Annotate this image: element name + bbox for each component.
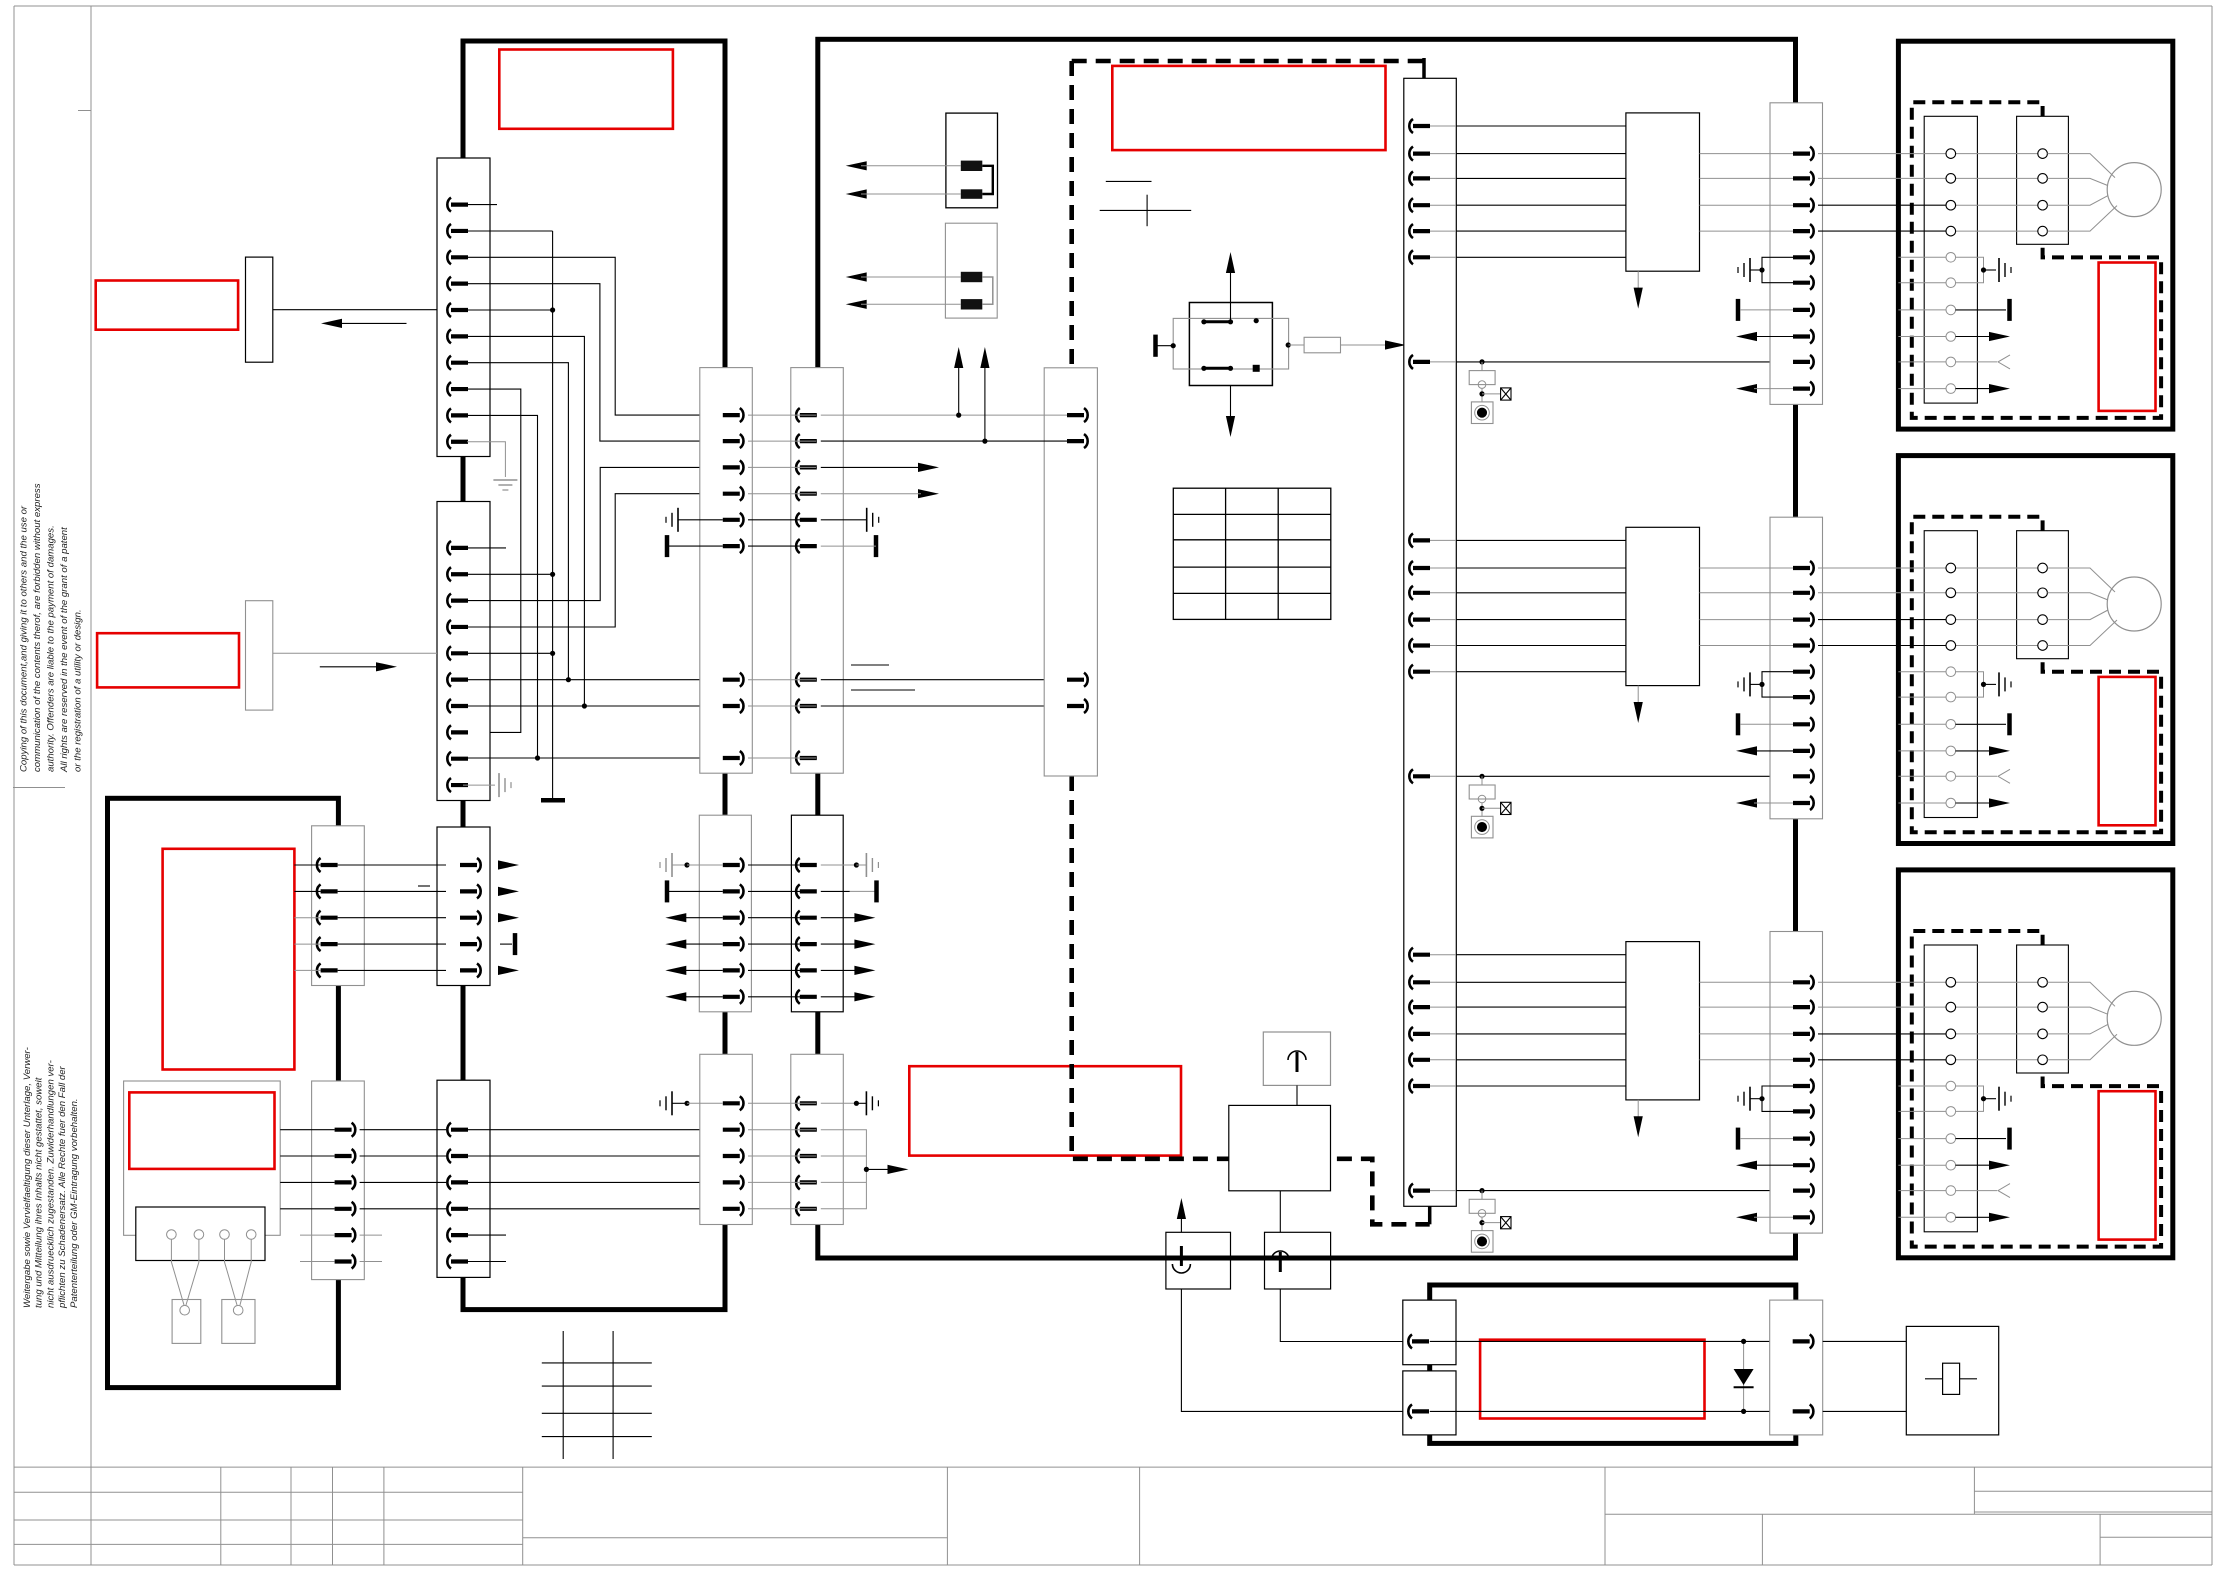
connector strip X7b: [791, 1054, 844, 1224]
pin X31.1: [1810, 147, 1814, 161]
wire X2.2 to bus: [463, 573, 553, 575]
wire X7 link: [748, 1208, 816, 1210]
wire X8 out: [338, 943, 446, 945]
diode V1: [1743, 1341, 1745, 1411]
wire B2-B3: [1279, 1191, 1281, 1233]
arrow X33.10: [1736, 1213, 1757, 1222]
pin X5a.5: [740, 513, 744, 527]
pin X6b.4: [796, 937, 800, 951]
wire X8 in: [294, 917, 320, 919]
display unit box: [124, 1081, 281, 1235]
relay K2 right resistor: [1286, 342, 1291, 347]
pin X2.1: [447, 541, 451, 555]
pin X5a.4: [740, 487, 744, 501]
wire T2 out 2: [1700, 592, 1794, 594]
pin X20.19: [1409, 1053, 1413, 1067]
pin X7a.4: [740, 1175, 744, 1189]
wire X9 out: [360, 1181, 446, 1183]
pin X4.6: [447, 1255, 451, 1269]
terminator M3.7: [1898, 1138, 1945, 1140]
pin X6a.1: [740, 858, 744, 872]
arrow out X3.5: [498, 966, 519, 975]
terminator left X5a.6: [665, 535, 670, 557]
wire X8 out: [338, 917, 446, 919]
indicator H22: [1471, 1231, 1493, 1253]
pin X20.9: [1409, 561, 1413, 575]
wire X33.3 to motor: [1818, 1033, 1946, 1035]
drive module T3: [1626, 942, 1700, 1100]
motor unit box M2: [1898, 456, 2172, 844]
wire X20 to T3: [1456, 954, 1626, 956]
wire X1.6 to X5a row706: [463, 336, 584, 706]
svg-text:Copying of this document,and g: Copying of this document,and giving it t…: [19, 505, 30, 772]
motor connector strip A3: [1924, 945, 1977, 1232]
socket A2.7: [1946, 720, 1956, 730]
wire X31.4 to motor: [1818, 230, 1946, 232]
pin X3.4: [477, 937, 481, 951]
wire X20 to T2: [1456, 567, 1626, 569]
pin X5a.6: [740, 539, 744, 553]
pin X31.6: [1810, 276, 1814, 290]
wire B4 to X11.2: [1181, 1289, 1403, 1411]
pin X5a.7: [740, 673, 744, 687]
left stubs M3: [1898, 1085, 1945, 1087]
wire X5b row679 out: [821, 679, 1065, 681]
socket A1.2: [1946, 174, 1956, 184]
wire T3 out 3: [1700, 1033, 1794, 1035]
socket A1.3: [1946, 200, 1956, 210]
wire X4.4: [463, 1208, 720, 1210]
connector strip X32: [1770, 517, 1823, 819]
pin X1.8: [447, 382, 451, 396]
pin X3.2: [477, 884, 481, 898]
earth bracket M2: [1956, 672, 1984, 697]
wire X20 to T3: [1456, 1006, 1626, 1008]
pin X6b.1: [796, 858, 800, 872]
wire X7 link: [748, 1155, 816, 1157]
earth bracket X33: [1762, 1086, 1793, 1111]
arrow out F2.1: [846, 272, 867, 281]
connector box X11.1: [1403, 1300, 1456, 1365]
terminal circle 1: [167, 1230, 177, 1240]
stub to X20 top: [1422, 58, 1426, 78]
mounting grid: [562, 1331, 564, 1459]
pin X2.5: [447, 646, 451, 660]
wire X2.5 to bus: [463, 652, 553, 654]
pin X7b.5: [796, 1202, 800, 1216]
wire X8 out: [338, 890, 446, 892]
wire motor link 2: [1956, 177, 2038, 179]
socket A1.6: [1946, 278, 1956, 288]
pin X1.7: [447, 356, 451, 370]
earth right X6b.1: [821, 864, 857, 866]
redacted text cross: [1100, 209, 1192, 211]
wire T1 out 4: [1700, 230, 1794, 232]
frame divider y787: [13, 787, 65, 789]
socket A1.1: [1946, 149, 1956, 159]
pin X33.7: [1810, 1132, 1814, 1146]
pin X3.1: [477, 858, 481, 872]
pin X8.2: [317, 884, 321, 898]
earth bracket M1: [1956, 257, 1984, 282]
arrow M1.8: [1898, 336, 1945, 338]
pin X6a.5: [740, 963, 744, 977]
wire row1341: [1430, 1340, 1770, 1342]
pin X5a.3: [740, 460, 744, 474]
wire T1 out 1: [1700, 153, 1794, 155]
arrow left X6a: [665, 940, 686, 949]
pin X6a.4: [740, 937, 744, 951]
plug box B3: [1265, 1232, 1331, 1289]
pin X32.4: [1810, 639, 1814, 653]
wire to X10.1: [959, 414, 1067, 416]
motor M3 circle: [2107, 991, 2161, 1045]
pin X32.7: [1810, 717, 1814, 731]
svg-text:All rights are reserved in the: All rights are reserved in the event of …: [59, 527, 70, 773]
pin X12.2: [1810, 1404, 1814, 1418]
pin X33.3: [1810, 1027, 1814, 1041]
pin X5a.9: [740, 751, 744, 765]
wire X5 link: [748, 679, 816, 681]
pin X6b.2: [796, 884, 800, 898]
drive module T2: [1626, 527, 1700, 685]
wire X9 out: [360, 1129, 446, 1131]
pin X20.det2: [1409, 769, 1413, 783]
arrow M2.8: [1898, 750, 1945, 752]
wire motor link 1: [1956, 153, 2038, 155]
socket A1.8: [1946, 332, 1956, 342]
pin X20.18: [1409, 1027, 1413, 1041]
svg-text:or the registration of a utili: or the registration of a utility or desi…: [72, 609, 83, 772]
wire X8 out: [338, 969, 446, 971]
wire X20 to T3: [1456, 1033, 1626, 1035]
wire X1.8 to X2.8: [463, 389, 521, 732]
connector strip X5a: [700, 368, 753, 774]
pin X31.9: [1810, 355, 1814, 369]
wire X20 to T2: [1456, 671, 1626, 673]
wire X4.5 stub: [463, 1234, 506, 1236]
pin X9.3: [352, 1175, 356, 1189]
arrow out X7b: [864, 1167, 869, 1172]
arrow left X6a: [665, 913, 686, 922]
pin X1.9: [447, 408, 451, 422]
wire X9 in: [280, 1208, 334, 1210]
arrow out F1.2: [846, 189, 867, 198]
wire X9 out: [360, 1208, 446, 1210]
emergency detector S20: [1456, 361, 1793, 363]
wire X2.7 row706: [463, 705, 720, 707]
pin X9.1: [352, 1123, 356, 1137]
pin X31.10: [1810, 382, 1814, 396]
wire X5b.1 out: [821, 414, 959, 416]
connector box X11.2: [1403, 1371, 1456, 1435]
pin X32.6: [1810, 690, 1814, 704]
pin X6b.3: [796, 911, 800, 925]
shield dashed M1: [1912, 102, 2161, 418]
arrow right X6b: [854, 966, 875, 975]
pin X20.det1: [1409, 355, 1413, 369]
pin X31.3: [1810, 198, 1814, 212]
plug box B4: [1166, 1232, 1231, 1289]
wire X5 row546 link: [748, 545, 816, 547]
lamp wires: [171, 1239, 184, 1305]
bus stub below X20: [1428, 1206, 1432, 1224]
pin X32.10: [1810, 796, 1814, 810]
wire X2.3 to X5a.3: [463, 467, 720, 600]
wire T3 out 2: [1700, 1006, 1794, 1008]
pin X31.7: [1810, 303, 1814, 317]
socket A3.5: [1946, 1081, 1956, 1091]
pin X33.2: [1810, 1000, 1814, 1014]
arrow right X6b: [854, 992, 875, 1001]
wire X5 link: [748, 493, 816, 495]
socket A3.2: [1946, 1002, 1956, 1012]
svg-text:Patenterteilung oder GM-Eintra: Patenterteilung oder GM-Eintragung vorbe…: [69, 1098, 80, 1308]
pin X20.1: [1409, 119, 1413, 133]
wire X7 link: [748, 1181, 816, 1183]
pin X5a.1: [740, 408, 744, 422]
arrow left X6a: [665, 992, 686, 1001]
pin X9.4: [352, 1202, 356, 1216]
pin X7a.2: [740, 1123, 744, 1137]
wire to X10.2: [985, 440, 1067, 442]
wire X32.4 to motor: [1818, 645, 1946, 647]
tick mark X8: [418, 885, 430, 887]
wire T3 out 4: [1700, 1059, 1794, 1061]
pin X32.9: [1810, 769, 1814, 783]
wire X4.3: [463, 1181, 720, 1183]
arrow M2.10: [1898, 802, 1945, 804]
arrow out X3.3: [498, 913, 519, 922]
terminal circle 3: [220, 1230, 230, 1240]
motor connector strip A1: [1924, 116, 1977, 403]
socket A3.7: [1946, 1134, 1956, 1144]
connector strip X4: [437, 1080, 490, 1277]
wire X6 link: [748, 917, 816, 919]
socket B1.2: [2038, 174, 2048, 184]
wire motor link 4: [1956, 645, 2038, 647]
relay K2 contacts: [1204, 320, 1231, 323]
wire motor link 1: [1956, 981, 2038, 983]
wire X7 link: [748, 1102, 816, 1104]
terminator M2.7: [1898, 723, 1945, 725]
terminator X32.7: [1736, 713, 1741, 735]
arrow out X3.2: [498, 887, 519, 896]
pin X7a.3: [740, 1149, 744, 1163]
wire X9 stub: [300, 1261, 335, 1263]
pin X2.10: [447, 778, 451, 792]
pin X2.9: [447, 752, 451, 766]
pin X6b.5: [796, 963, 800, 977]
pin X20.16: [1409, 975, 1413, 989]
motor connector strip A2: [1924, 531, 1977, 818]
socket B2.1: [2038, 563, 2048, 573]
wire X20 to T1: [1456, 204, 1626, 206]
bus X11 left: [1428, 1365, 1432, 1371]
pin X7b.4: [796, 1175, 800, 1189]
wire X5b.3 out: [918, 463, 939, 472]
pin X5a.2: [740, 434, 744, 448]
pin X1.4: [447, 277, 451, 291]
pin X20.10: [1409, 586, 1413, 600]
pin X10.4: [1084, 699, 1088, 713]
svg-text:Weitergabe sowie Vervielfaelti: Weitergabe sowie Vervielfaeltigung diese…: [22, 1047, 33, 1308]
wire X5 row519 link: [748, 519, 816, 521]
relay box K3: [1906, 1326, 1998, 1435]
label box S11: [97, 633, 239, 687]
relay K3 coil: [1943, 1363, 1960, 1394]
ground under X1: [467, 442, 505, 477]
wire T2 out 4: [1700, 645, 1794, 647]
pin X9.2: [352, 1149, 356, 1163]
arrow M1.10: [1898, 388, 1945, 390]
motor M1 circle: [2107, 163, 2161, 217]
socket A2.4: [1946, 641, 1956, 651]
wire X33.2 to motor: [1818, 1006, 1946, 1008]
connector strip X7a: [700, 1054, 753, 1224]
socket A2.6: [1946, 692, 1956, 702]
wire X20 to T1: [1456, 177, 1626, 179]
pin X5b.8: [796, 699, 800, 713]
arrow left S10: [321, 319, 342, 328]
pin X32.8: [1810, 744, 1814, 758]
wire B3 to X11.1: [1280, 1289, 1403, 1342]
pin X31.5: [1810, 250, 1814, 264]
earth right X7b.1: [821, 1102, 857, 1104]
wire motor link 2: [1956, 592, 2038, 594]
wire T2 out 1: [1700, 567, 1794, 569]
pin X1.3: [447, 250, 451, 264]
terminator X33.7: [1736, 1128, 1741, 1150]
wire motor link 2: [1956, 1006, 2038, 1008]
socket A3.10: [1946, 1213, 1956, 1223]
fork M3.9: [1898, 1190, 1945, 1192]
wire X8 in: [294, 890, 320, 892]
blocked contact S21: [1501, 802, 1511, 814]
pin X9.5: [352, 1228, 356, 1242]
motor plug strip B3: [2017, 945, 2069, 1073]
pin X2.4: [447, 620, 451, 634]
pin X1.10: [447, 435, 451, 449]
label box S10: [96, 281, 238, 330]
socket B3.2: [2038, 1002, 2048, 1012]
converter box B2: [1229, 1105, 1331, 1190]
arrow out F2.2: [846, 300, 867, 309]
wire motor link 3: [1956, 619, 2038, 621]
PE bus through B3 B4: [1150, 1256, 1350, 1261]
pin X11.2: [1408, 1404, 1412, 1418]
wire X1.7 to X5a row679: [463, 363, 568, 680]
earth bracket X31: [1762, 257, 1793, 282]
wire X33.4 to motor: [1818, 1059, 1946, 1061]
arrow down T1: [1637, 271, 1639, 295]
wire row1411: [1430, 1410, 1770, 1412]
arrow down T3: [1637, 1100, 1639, 1124]
pin X1.5: [447, 303, 451, 317]
label box M1: [2099, 263, 2156, 411]
label box A1: [1112, 66, 1385, 150]
wire S10 to X1.5: [273, 309, 437, 311]
pin X33.1: [1810, 975, 1814, 989]
wire T1 out 2: [1700, 177, 1794, 179]
pin X2.6: [447, 673, 451, 687]
socket A1.9: [1946, 357, 1956, 367]
pin X10.2: [1084, 434, 1088, 448]
motor unit box M3: [1898, 870, 2172, 1258]
pin X31.4: [1810, 224, 1814, 238]
wire X5 link: [748, 466, 816, 468]
wire X5 link: [748, 414, 816, 416]
socket A2.5: [1946, 667, 1956, 677]
pin X7a.1: [740, 1096, 744, 1110]
wire X20 to T2: [1456, 619, 1626, 621]
fork M2.9: [1898, 775, 1945, 777]
wire motor link 3: [1956, 1033, 2038, 1035]
blocked contact S20: [1501, 388, 1511, 400]
pin X32.3: [1810, 613, 1814, 627]
pin X10.1: [1084, 408, 1088, 422]
pin X32.5: [1810, 665, 1814, 679]
wire B1-B2: [1296, 1085, 1298, 1105]
wire X12.2 to K3: [1823, 1410, 1907, 1412]
wire X1.4 to X5a.2: [463, 284, 720, 441]
pin X20.3: [1409, 171, 1413, 185]
wire T3 out 1: [1700, 981, 1794, 983]
arrow down T2: [1637, 686, 1639, 710]
cabinet box top-left: [463, 41, 725, 1310]
wire X20 to T1: [1456, 256, 1626, 258]
wire X2.1 stub: [463, 547, 506, 549]
pin X11.1: [1408, 1334, 1412, 1348]
pin X20.13: [1409, 665, 1413, 679]
label box A4: [129, 1092, 274, 1169]
wire X4.2: [463, 1155, 720, 1157]
pin X20.20: [1409, 1079, 1413, 1093]
wire X20 to T2: [1456, 592, 1626, 594]
terminal block: [136, 1207, 265, 1261]
motor plug strip B1: [2017, 116, 2069, 244]
svg-text:nicht ausdruecklich zugestande: nicht ausdruecklich zugestanden. Zuwider…: [45, 1060, 56, 1308]
socket A3.3: [1946, 1029, 1956, 1039]
label box A3 tall: [163, 849, 295, 1070]
dashed shield bus: [1072, 59, 1424, 64]
relay K2 outer: [1189, 303, 1272, 386]
lamp box H2: [222, 1300, 255, 1344]
socket A3.4: [1946, 1055, 1956, 1065]
wire motor link 3: [1956, 204, 2038, 206]
connector strip X20: [1404, 78, 1457, 1206]
earth left X5a.5: [677, 508, 679, 532]
motor feed wires M2: [2047, 568, 2115, 592]
emergency detector S21: [1456, 775, 1793, 777]
pin X5a.8: [740, 699, 744, 713]
wire X20 to T2: [1456, 645, 1626, 647]
pin X20.15: [1409, 948, 1413, 962]
title block: [14, 1466, 2212, 1468]
wire X8 in: [294, 864, 320, 866]
pin X33.5: [1810, 1079, 1814, 1093]
terminal circle 4: [246, 1230, 256, 1240]
pin X5b.3: [796, 460, 800, 474]
wire X8 in: [294, 943, 320, 945]
ground at X2.10: [463, 784, 495, 786]
lamp box H1: [172, 1300, 201, 1344]
wire X2.9 row758: [463, 757, 720, 759]
pin X8.4: [317, 937, 321, 951]
emergency detector S22: [1456, 1190, 1793, 1192]
pin X4.1: [447, 1123, 451, 1137]
socket B1.1: [2038, 149, 2048, 159]
